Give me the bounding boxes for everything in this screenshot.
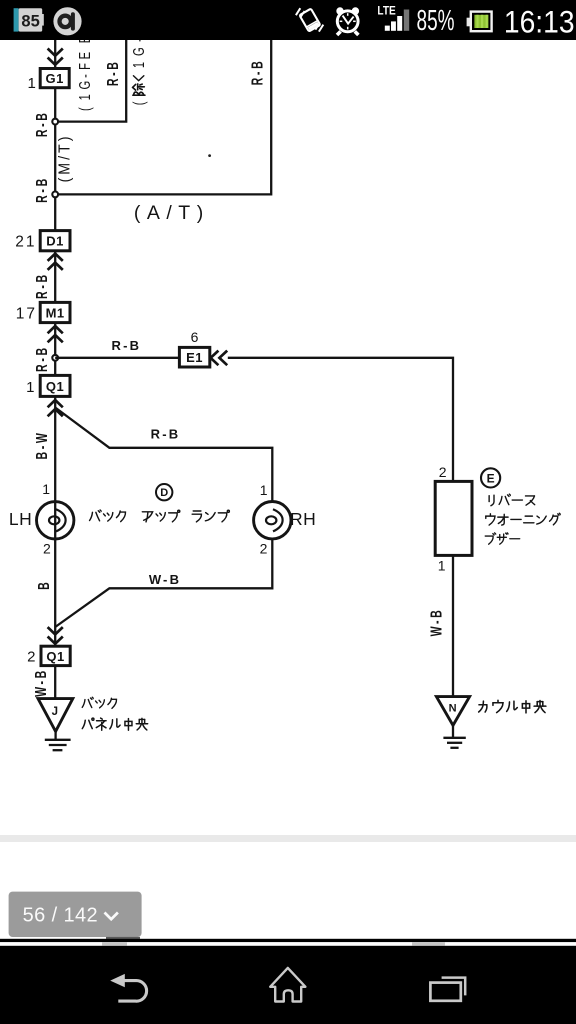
connector D1 [40,231,70,251]
wire diagonal branch to RH lamp [55,408,272,502]
svg-text:1: 1 [42,481,50,497]
wire D1 to M1 [54,251,56,303]
arrows into M1 (double chevron up) [48,326,63,342]
connector Q1 lower [41,646,70,665]
reverse warning buzzer box [435,481,472,555]
label (除く1G vertical [130,38,147,105]
wire branch A/T (up to top) [55,40,271,194]
svg-text:M1: M1 [46,306,65,321]
wire junction to E1 [55,357,179,359]
nav bar background [0,946,576,1024]
white sliver [0,942,576,946]
junction node at branch 2 [52,192,58,198]
svg-text:2: 2 [260,541,268,557]
wire buzzer to ground N [452,555,454,697]
junction node at branch 1 [52,119,58,125]
arrows into G1 (double chevron down) [48,49,63,65]
svg-text:(M/T): (M/T) [56,134,74,183]
svg-text:E1: E1 [186,350,203,365]
svg-text:Q1: Q1 [46,379,64,394]
wire E1 to buzzer branch [228,358,453,482]
arrows into E1 (double chevron left) [211,351,228,366]
svg-text:16:13: 16:13 [504,5,575,40]
svg-text:1: 1 [438,557,446,573]
arrows into lower Q1 (double chevron down) [48,627,63,644]
svg-text:R-B: R-B [104,59,122,86]
wire main vertical from top to G1 [54,40,56,69]
ground symbol J [45,731,71,750]
svg-text:W-B: W-B [427,608,445,637]
label cowl center (katakana) [479,700,546,713]
component label E (circled) [481,468,500,487]
label back panel center (katakana) [82,697,147,730]
svg-text:LH: LH [9,509,32,529]
ground triangle N [436,697,469,726]
svg-text:E: E [487,472,495,486]
svg-text:17: 17 [16,306,37,323]
svg-text:85: 85 [21,13,39,31]
svg-text:R-B: R-B [112,338,142,353]
svg-text:1: 1 [27,75,35,92]
lamp RH (bulb symbol) [254,502,291,539]
svg-text:2: 2 [43,541,51,557]
status bar vibrate icon [299,9,320,32]
arrows into Q1 (double chevron up) [48,400,63,416]
svg-text:21: 21 [15,234,36,251]
arrows into D1 (double chevron up) [48,254,63,270]
svg-text:R-B: R-B [151,427,181,442]
junction node to E1 [52,355,58,361]
svg-text:G: G [130,47,147,56]
svg-text:R-B: R-B [33,345,51,372]
connector G1 [40,69,69,88]
svg-text:D: D [160,487,168,499]
svg-text:85%: 85% [417,5,455,37]
svg-text:RH: RH [290,509,316,529]
svg-text:LTE: LTE [377,5,395,18]
svg-text:F: F [76,63,93,70]
svg-text:(: ( [130,101,147,105]
svg-text:B-W: B-W [33,430,51,459]
svg-text:W-B: W-B [32,668,50,697]
svg-text:R-B: R-B [33,272,51,299]
nav recents icon [430,978,465,1001]
black line above nav bar [0,939,576,942]
svg-text:D1: D1 [46,234,64,249]
ground symbol N [443,725,465,747]
wire branch 1G-FE (up to top) [55,40,126,122]
artifact under button [106,937,140,940]
svg-text:1: 1 [260,482,268,498]
status bar background [0,0,576,40]
status bar LTE + signal bars [377,5,409,31]
svg-text:R-B: R-B [33,176,51,203]
svg-text:R-B: R-B [248,59,266,86]
status bar app logo (a in circle) [53,7,81,35]
svg-text:Q1: Q1 [46,649,64,664]
svg-text:56 / 142: 56 / 142 [23,905,99,927]
svg-text:-: - [76,74,93,78]
svg-text:6: 6 [191,329,199,345]
svg-text:1: 1 [76,94,93,100]
svg-text:1: 1 [130,62,147,68]
svg-text:J: J [52,706,58,718]
svg-text:B: B [35,582,53,590]
svg-text:W-B: W-B [149,572,181,587]
svg-text:N: N [449,703,457,715]
status bar battery icon [467,12,492,32]
page number button [9,892,142,937]
svg-text:E: E [76,52,93,59]
connector M1 [40,302,70,322]
connector E1 [179,347,209,367]
label (1G-FE vertical [76,36,93,111]
svg-text:G: G [76,81,93,90]
label reverse warning buzzer (katakana) [485,494,560,544]
separator band [0,835,576,842]
ground triangle J [38,699,73,732]
component label D (circled) [156,484,172,500]
nav back icon [110,974,146,1001]
wire RH lamp down and across [55,539,272,627]
svg-text:2: 2 [27,649,36,666]
status bar alarm clock icon [336,7,359,35]
label back-up lamp (katakana) [90,510,230,522]
connector Q1 upper [40,375,70,396]
svg-text:1: 1 [26,379,35,396]
wire M1 to Q1 [54,323,56,376]
lamp LH (bulb symbol) [37,502,74,539]
nav home icon [270,968,305,1002]
wire Q1 to ground J [54,666,56,699]
wire Q1 to LH lamp and down to lower Q1 [54,396,56,646]
svg-text:G1: G1 [46,71,64,86]
wire main G1 to D1 [54,88,56,231]
status bar battery badge 85 [14,8,44,31]
svg-text:(: ( [76,107,93,111]
svg-text:2: 2 [439,464,447,480]
svg-text:R-B: R-B [33,110,51,137]
svg-text:(A/T): (A/T) [134,202,210,224]
speck artifact [208,154,211,157]
